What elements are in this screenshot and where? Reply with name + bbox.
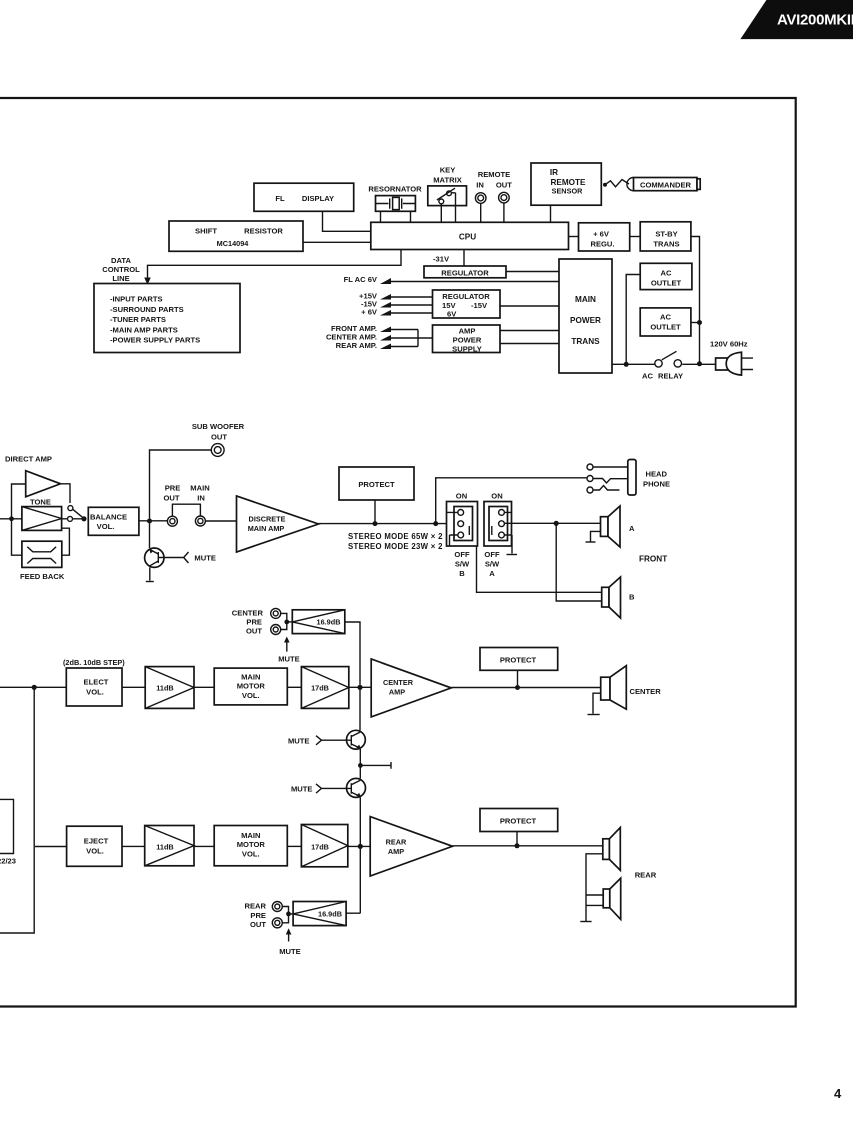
main motor volume center <box>214 668 287 705</box>
FL AC 6V feed <box>344 275 559 284</box>
balance volume block <box>88 507 139 535</box>
svg-text:-31V: -31V <box>433 255 450 264</box>
svg-text:B: B <box>629 593 635 602</box>
svg-text:-TUNER PARTS: -TUNER PARTS <box>110 315 166 324</box>
key matrix switch <box>428 166 467 206</box>
selector contact direct <box>68 506 73 511</box>
svg-text:POWER: POWER <box>570 316 601 325</box>
speaker B <box>602 577 635 618</box>
wire switch A to speaker A <box>504 522 600 524</box>
svg-text:AMP: AMP <box>459 327 476 336</box>
svg-text:SHIFT: SHIFT <box>195 226 217 235</box>
node rear pre tap <box>358 844 363 849</box>
selector arm <box>73 509 84 518</box>
svg-text:MAIN: MAIN <box>241 673 260 682</box>
svg-text:+ 6V: + 6V <box>593 229 610 238</box>
wire CPU to +6V regu <box>569 236 579 238</box>
svg-text:CONTROL: CONTROL <box>102 265 140 274</box>
svg-text:OUTLET: OUTLET <box>651 279 682 288</box>
ground rear speakers <box>580 921 591 923</box>
svg-text:POWER: POWER <box>453 336 482 345</box>
svg-text:ELECT: ELECT <box>84 678 109 687</box>
svg-text:MUTE: MUTE <box>288 737 310 746</box>
15V regulator block <box>433 290 501 319</box>
svg-text:B: B <box>459 569 465 578</box>
wire mute transistor to ground <box>149 567 151 580</box>
svg-text:MOTOR: MOTOR <box>237 682 266 691</box>
svg-text:REAR AMP.: REAR AMP. <box>336 341 377 350</box>
svg-text:OFF: OFF <box>484 550 500 559</box>
16.9dB attenuator center <box>287 610 345 634</box>
svg-text:BALANCE: BALANCE <box>90 513 127 522</box>
pre out jack <box>163 484 180 527</box>
center pre mute arrow <box>278 637 300 664</box>
svg-text:MAIN: MAIN <box>241 831 260 840</box>
-15V feed <box>361 300 433 309</box>
svg-text:PRE: PRE <box>250 911 266 920</box>
rear speaker 1 <box>603 828 621 871</box>
node plug AC junction <box>697 361 702 366</box>
svg-text:AMP: AMP <box>389 688 405 697</box>
svg-text:A: A <box>629 524 635 533</box>
svg-text:HEAD: HEAD <box>646 470 668 479</box>
svg-text:STEREO MODE 65W × 2: STEREO MODE 65W × 2 <box>348 532 443 541</box>
svg-text:17dB: 17dB <box>311 842 329 851</box>
11dB amp rear <box>145 826 194 866</box>
svg-text:KEY: KEY <box>440 166 456 175</box>
node headphone tap <box>433 521 438 526</box>
headphone contact wires <box>593 466 628 468</box>
svg-text:TONE: TONE <box>30 497 51 506</box>
ground front mute <box>146 581 154 583</box>
svg-text:DISCRETE: DISCRETE <box>249 515 286 524</box>
svg-text:COMMANDER: COMMANDER <box>640 181 692 190</box>
svg-text:SUPPLY: SUPPLY <box>452 345 482 354</box>
svg-text:17dB: 17dB <box>311 683 329 692</box>
svg-text:FEED BACK: FEED BACK <box>20 572 65 581</box>
svg-text:OUT: OUT <box>246 627 262 636</box>
svg-text:16.9dB: 16.9dB <box>317 618 341 627</box>
wires center pre out jacks <box>281 613 287 629</box>
remote out jack <box>496 181 512 203</box>
source page box 22/23 <box>0 799 16 865</box>
svg-text:+ 6V: + 6V <box>361 308 378 317</box>
svg-text:CENTER: CENTER <box>232 609 264 618</box>
svg-text:RESISTOR: RESISTOR <box>244 226 283 235</box>
svg-text:PROTECT: PROTECT <box>358 480 395 489</box>
center protect block <box>480 648 558 671</box>
AC plug 120V 60Hz <box>710 340 753 376</box>
REAR AMP feed <box>336 341 418 350</box>
main motor volume rear <box>214 826 287 866</box>
svg-text:4: 4 <box>834 1086 842 1101</box>
tone amp block <box>22 497 62 530</box>
elect volume block <box>66 668 122 706</box>
svg-text:REMOTE: REMOTE <box>550 178 586 187</box>
node main trans AC junction <box>624 362 629 367</box>
amp feeds bracket wire <box>418 330 433 347</box>
FRONT AMP feed <box>331 324 418 333</box>
svg-text:ON: ON <box>456 492 467 501</box>
wire +6V regu to st-by trans <box>630 236 641 238</box>
AC outlet 1 <box>640 263 692 289</box>
svg-text:SENSOR: SENSOR <box>552 187 584 196</box>
svg-text:TRANS: TRANS <box>653 240 679 249</box>
front protect block <box>339 467 414 500</box>
svg-text:VOL.: VOL. <box>86 846 104 855</box>
16.9dB attenuator rear <box>289 902 347 926</box>
svg-text:RESORNATOR: RESORNATOR <box>368 185 422 194</box>
feedback block <box>20 541 65 581</box>
node mute bias tap <box>358 763 363 768</box>
svg-text:CENTER: CENTER <box>630 687 662 696</box>
wire main motor vol to 17dB <box>287 686 301 688</box>
wire center line to mute chain <box>359 687 361 730</box>
svg-text:PROTECT: PROTECT <box>500 817 537 826</box>
svg-text:-POWER SUPPLY PARTS: -POWER SUPPLY PARTS <box>110 336 200 345</box>
svg-text:REGULATOR: REGULATOR <box>442 292 490 301</box>
center speaker <box>601 666 662 710</box>
svg-text:AC: AC <box>660 313 671 322</box>
svg-text:MUTE: MUTE <box>291 785 313 794</box>
wire AC outlet 2 to AC line <box>691 322 700 324</box>
svg-text:VOL.: VOL. <box>242 849 260 858</box>
node rear pre out <box>286 912 291 917</box>
wire mute chain mid <box>359 749 361 778</box>
wire speaker A node to speaker B <box>556 523 602 601</box>
data control line net <box>102 250 401 285</box>
svg-text:S/W: S/W <box>485 560 500 569</box>
svg-text:11dB: 11dB <box>156 683 173 692</box>
svg-text:MOTOR: MOTOR <box>237 840 266 849</box>
wire elect vol to 11dB <box>122 686 145 688</box>
svg-text:11dB: 11dB <box>156 842 173 851</box>
svg-text:6V: 6V <box>447 310 457 319</box>
rear pre out jacks <box>244 902 282 930</box>
AC relay contacts <box>642 351 683 380</box>
ground speaker A <box>586 531 601 542</box>
resonator X1 <box>368 185 422 212</box>
svg-text:EJECT: EJECT <box>84 837 109 846</box>
sub woofer out jack <box>192 422 245 456</box>
center input wire <box>0 686 66 688</box>
node selector output <box>81 516 86 521</box>
wire mute chain to rear line <box>359 797 361 844</box>
svg-text:DISPLAY: DISPLAY <box>302 194 334 203</box>
svg-text:MAIN: MAIN <box>575 295 596 304</box>
node front input <box>9 516 14 521</box>
svg-text:MUTE: MUTE <box>279 947 301 956</box>
rear pre mute arrow <box>279 928 301 956</box>
svg-text:PRE: PRE <box>165 484 181 493</box>
wire remote jacks to CPU <box>481 203 504 222</box>
mute transistor Q3 <box>291 778 366 797</box>
svg-text:VOL.: VOL. <box>97 522 115 531</box>
amp power supply block <box>433 325 501 354</box>
wire direct amp to selector <box>61 484 71 503</box>
headphone jack contact 3 <box>587 487 593 493</box>
svg-text:AVI200MKII: AVI200MKII <box>777 12 853 29</box>
svg-text:-MAIN AMP PARTS: -MAIN AMP PARTS <box>110 325 178 334</box>
svg-text:MUTE: MUTE <box>278 655 300 664</box>
svg-text:MAIN AMP: MAIN AMP <box>248 524 285 533</box>
wire eject vol to 11dB <box>122 845 145 847</box>
svg-text:IN: IN <box>476 181 484 190</box>
model tab AVI200MKII <box>740 0 853 39</box>
direct amp A1 <box>5 455 61 497</box>
center amp <box>371 659 451 717</box>
ground switch A <box>507 554 518 556</box>
CENTER AMP feed <box>326 333 418 342</box>
svg-text:PHONE: PHONE <box>643 480 670 489</box>
svg-text:FRONT: FRONT <box>639 555 667 564</box>
IR remote sensor <box>531 163 601 205</box>
direct amp bypass wire <box>12 484 26 519</box>
commander remote wire squiggle <box>603 180 629 187</box>
17dB amp center <box>301 667 348 709</box>
svg-text:ST-BY: ST-BY <box>655 230 677 239</box>
commander handset <box>627 178 700 191</box>
svg-text:-15V: -15V <box>471 301 488 310</box>
svg-text:OUT: OUT <box>211 433 227 442</box>
node center input <box>32 685 37 690</box>
remote in jack <box>475 170 510 203</box>
svg-text:REAR: REAR <box>635 871 657 880</box>
wire tone out to selector <box>62 518 82 520</box>
svg-text:FL: FL <box>275 194 285 203</box>
front output wire <box>319 523 458 525</box>
wire resonator legs to CPU <box>381 211 411 222</box>
svg-text:MUTE: MUTE <box>194 554 216 563</box>
eject volume block <box>67 826 122 866</box>
svg-text:OUT: OUT <box>496 181 512 190</box>
wire shift register to CPU <box>303 241 371 243</box>
svg-text:DATA: DATA <box>111 256 131 265</box>
svg-text:-SURROUND PARTS: -SURROUND PARTS <box>110 305 184 314</box>
wire center protect to line <box>517 670 519 687</box>
node rear protect <box>515 843 520 848</box>
rear protect block <box>480 809 558 832</box>
svg-text:VOL.: VOL. <box>86 687 104 696</box>
FL display U2 <box>254 183 354 211</box>
rear speakers series wiring <box>586 854 603 921</box>
svg-text:RELAY: RELAY <box>658 372 683 381</box>
wire sub woofer branch <box>150 450 212 548</box>
wires rear pre out jacks <box>282 907 288 923</box>
wire 11dB to main motor vol <box>194 686 214 688</box>
node pre out tap <box>147 519 152 524</box>
wire rear line to 16.9dB <box>346 849 360 913</box>
wire center line to 16.9dB <box>345 622 360 685</box>
stereo mode label <box>348 532 443 551</box>
svg-text:CENTER: CENTER <box>383 678 414 687</box>
+6V feed <box>361 308 432 317</box>
stand-by transformer <box>640 222 691 251</box>
wire IR sensor to CPU <box>550 205 552 222</box>
svg-text:OFF: OFF <box>454 550 470 559</box>
svg-text:TRANS: TRANS <box>571 337 600 346</box>
wire switch B to speaker B <box>477 546 602 592</box>
wire AC outlet 1 branch <box>626 275 640 365</box>
svg-text:PRE: PRE <box>246 618 262 627</box>
center pre out jacks <box>232 608 281 635</box>
wire 15V regulator to main power trans <box>500 305 559 307</box>
mute bias stub <box>360 762 391 769</box>
wire rear protect to line <box>516 832 518 846</box>
11dB amp center <box>145 667 194 709</box>
svg-text:A: A <box>489 569 495 578</box>
mute transistor Q1 <box>145 548 216 567</box>
svg-text:16.9dB: 16.9dB <box>318 910 342 919</box>
svg-text:120V 60Hz: 120V 60Hz <box>710 340 748 349</box>
wire balance vol to pre out node <box>139 520 167 522</box>
+15V feed <box>359 292 432 301</box>
svg-text:REGU.: REGU. <box>590 239 614 248</box>
-31V regulator <box>424 255 506 278</box>
wire CPU to -31V regulator <box>463 250 465 267</box>
node center pre tap <box>357 685 362 690</box>
rear output wire <box>453 845 603 847</box>
svg-text:MC14094: MC14094 <box>217 239 250 248</box>
svg-text:AC: AC <box>642 372 653 381</box>
rear speaker 2 <box>603 878 621 919</box>
CPU U1 <box>371 222 569 249</box>
node center protect <box>515 685 520 690</box>
svg-text:VOL.: VOL. <box>242 691 260 700</box>
svg-text:REMOTE: REMOTE <box>478 170 511 179</box>
wire main motor vol to 17dB rear <box>287 845 301 847</box>
svg-text:OUT: OUT <box>250 920 266 929</box>
wire 11dB to main motor vol rear <box>194 845 214 847</box>
wire center to rear branch <box>0 687 67 933</box>
svg-text:FL AC 6V: FL AC 6V <box>344 275 378 284</box>
discrete main amp <box>237 496 319 552</box>
+6V regulator <box>579 223 630 251</box>
pre-main jumper wire <box>172 504 200 516</box>
wire 17dB to rear amp <box>348 845 370 847</box>
main power transformer T1 <box>559 259 612 373</box>
svg-text:MAIN: MAIN <box>190 484 209 493</box>
svg-text:REAR: REAR <box>244 902 266 911</box>
svg-text:ON: ON <box>491 492 502 501</box>
speaker switch B <box>447 492 478 578</box>
main in jack <box>190 484 209 526</box>
svg-text:AMP: AMP <box>388 847 404 856</box>
node protect front <box>373 521 378 526</box>
rear amp <box>370 817 452 876</box>
wire protect to front line <box>374 500 376 524</box>
svg-text:22/23: 22/23 <box>0 857 16 866</box>
wire headphone feed <box>436 478 587 524</box>
svg-text:CPU: CPU <box>459 232 476 241</box>
svg-text:REGULATOR: REGULATOR <box>441 269 489 278</box>
17dB amp rear <box>301 825 347 867</box>
svg-text:IN: IN <box>197 494 205 503</box>
svg-text:IR: IR <box>550 168 558 177</box>
wire main in to discrete amp <box>206 520 237 522</box>
selector contact tone <box>68 516 73 521</box>
AC mains line <box>612 363 716 365</box>
shift register IC MC14094 <box>169 221 303 251</box>
front input wire <box>0 518 22 520</box>
svg-text:PROTECT: PROTECT <box>500 656 537 665</box>
feedback loop wire <box>12 519 70 555</box>
svg-text:SUB WOOFER: SUB WOOFER <box>192 422 245 431</box>
wire 17dB to center amp <box>349 686 371 688</box>
ground center speaker <box>588 693 601 714</box>
svg-text:OUT: OUT <box>163 494 179 503</box>
wire -31V regulator to main power trans <box>506 271 559 273</box>
svg-text:LINE: LINE <box>112 274 129 283</box>
svg-text:STEREO MODE 23W × 2: STEREO MODE 23W × 2 <box>348 542 443 551</box>
speaker A <box>601 506 636 547</box>
svg-text:(2dB. 10dB STEP): (2dB. 10dB STEP) <box>63 658 125 667</box>
node center pre out <box>284 620 289 625</box>
node AC outlet 2 junction <box>697 320 702 325</box>
AC outlet 2 <box>640 308 691 336</box>
mute transistor Q2 <box>288 730 365 749</box>
page border frame <box>0 98 796 1007</box>
svg-text:S/W: S/W <box>455 560 470 569</box>
headphone jack body <box>628 460 670 496</box>
svg-text:MATRIX: MATRIX <box>433 175 462 184</box>
node speaker A junction <box>554 521 559 526</box>
speaker switch A <box>484 492 512 578</box>
wire key matrix to CPU <box>441 193 455 223</box>
wire st-by trans to AC line <box>691 237 700 364</box>
center output wire <box>451 687 601 689</box>
svg-text:DIRECT AMP: DIRECT AMP <box>5 455 52 464</box>
svg-text:AC: AC <box>661 269 672 278</box>
svg-text:-INPUT PARTS: -INPUT PARTS <box>110 295 163 304</box>
wire FL display to CPU <box>323 211 371 231</box>
controlled parts list box <box>94 284 240 353</box>
svg-text:OUTLET: OUTLET <box>650 323 681 332</box>
headphone jack contact 2 <box>587 476 593 482</box>
svg-text:REAR: REAR <box>386 838 407 847</box>
wires amp power supply to main power trans <box>500 331 559 344</box>
headphone jack contact 1 <box>587 464 593 470</box>
